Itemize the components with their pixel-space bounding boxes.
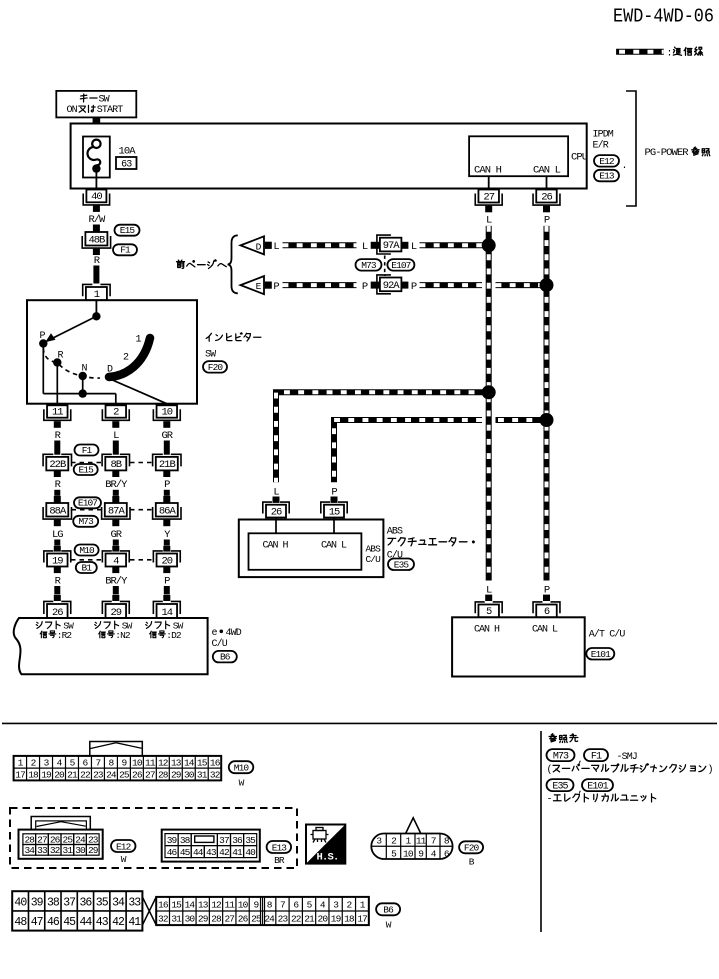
svg-text:42: 42 — [219, 847, 230, 858]
label P after 92A — [411, 281, 417, 293]
svg-text:23: 23 — [88, 834, 99, 845]
svg-text:21: 21 — [304, 914, 315, 925]
fuse label 10A [63] — [116, 145, 137, 170]
svg-text:CAN L: CAN L — [533, 164, 561, 176]
curly brace — [228, 235, 238, 293]
AT C/U box — [452, 617, 585, 676]
svg-text:4: 4 — [113, 555, 119, 567]
label ABS アクチュエーター C/U — [387, 527, 474, 562]
svg-text:25: 25 — [63, 834, 74, 845]
svg-text:B6: B6 — [220, 652, 231, 663]
svg-text:17: 17 — [357, 914, 367, 925]
inhibitor wiper arrow to P — [45, 316, 96, 342]
svg-text:7: 7 — [96, 757, 101, 768]
svg-text:87A: 87A — [108, 505, 126, 517]
svg-text:48B: 48B — [88, 234, 105, 246]
svg-text::N2: :N2 — [115, 630, 131, 641]
svg-text:86A: 86A — [159, 505, 177, 517]
comm line E segment 1 — [283, 282, 357, 288]
label P at AT pin 6 — [544, 584, 550, 596]
svg-text:13: 13 — [171, 757, 182, 768]
stub ABS pin 26 — [273, 497, 280, 503]
label BR under E13 — [274, 855, 285, 866]
oval B1 — [76, 562, 97, 573]
svg-text:33: 33 — [37, 845, 48, 856]
ABS inner CPU box — [249, 533, 362, 570]
svg-text:L: L — [411, 241, 417, 253]
svg-text:10: 10 — [132, 757, 143, 768]
svg-text:B6: B6 — [383, 905, 394, 916]
svg-text:31: 31 — [197, 770, 208, 781]
svg-text:45: 45 — [180, 847, 191, 858]
svg-text:43: 43 — [206, 847, 217, 858]
svg-text:-: - — [547, 794, 553, 805]
junction dot branch CAN L — [540, 413, 554, 427]
svg-text:P: P — [411, 281, 417, 293]
legend comm line sample — [616, 49, 664, 55]
connector 15 pin on ABS — [321, 502, 347, 518]
svg-text:20: 20 — [54, 770, 65, 781]
svg-text:L: L — [486, 584, 492, 596]
svg-text:A/T C/U: A/T C/U — [589, 629, 626, 641]
label P at ABS pin 15 — [331, 486, 337, 498]
svg-text:21: 21 — [67, 770, 78, 781]
oval B6 — [213, 651, 237, 663]
svg-text:11: 11 — [52, 407, 63, 419]
CPU box — [469, 136, 588, 176]
label P before 92A — [362, 281, 368, 293]
e4WD C/U box (torn left edge) — [14, 618, 208, 674]
stub left of 97A — [371, 242, 380, 249]
B6 bowtie link — [142, 897, 156, 925]
label シフトSW 信号:D2 — [146, 620, 184, 641]
svg-text:4WD: 4WD — [226, 628, 242, 639]
connector 92A — [377, 275, 402, 294]
svg-text:29: 29 — [88, 845, 99, 856]
svg-text:23: 23 — [93, 770, 104, 781]
svg-text:.: . — [622, 161, 628, 172]
svg-text:P: P — [544, 584, 550, 596]
svg-text:): ) — [708, 764, 714, 776]
connector 1 on inhibitor SW — [83, 284, 110, 301]
svg-text:38: 38 — [47, 896, 60, 909]
oval E107 — [387, 259, 414, 271]
comm line E segment 2b (after crossing) — [496, 282, 547, 288]
comm line D segment 1 — [283, 242, 357, 248]
label L at AT pin 5 — [486, 584, 492, 596]
svg-text:E12: E12 — [599, 156, 615, 167]
svg-text:E101: E101 — [591, 649, 611, 660]
svg-text:32: 32 — [210, 770, 221, 781]
IPDM E/R box — [71, 124, 587, 189]
svg-text:P: P — [544, 214, 550, 226]
svg-text:23: 23 — [278, 914, 289, 925]
svg-text:24: 24 — [106, 770, 117, 781]
connector 14 pin on e4WD — [153, 601, 180, 618]
svg-text:e: e — [212, 628, 218, 639]
label e 4WD C/U — [212, 628, 242, 650]
svg-text:2: 2 — [113, 407, 119, 419]
wire R from 19 to 26 — [54, 567, 62, 602]
label シフトSW 信号:R2 — [36, 620, 74, 641]
svg-text:92A: 92A — [383, 280, 401, 292]
svg-text:13: 13 — [198, 899, 209, 910]
svg-text:P: P — [362, 281, 368, 293]
svg-text:40: 40 — [245, 847, 256, 858]
wire Y from 86A to 20 — [163, 520, 171, 552]
svg-text:44: 44 — [80, 916, 93, 929]
reference divider vertical — [540, 731, 542, 932]
svg-text:M10: M10 — [234, 763, 250, 774]
svg-text:E/R: E/R — [593, 140, 609, 152]
connector 19 — [44, 551, 71, 567]
connector 87A — [102, 503, 130, 519]
svg-text:37: 37 — [63, 896, 75, 909]
svg-text:CAN L: CAN L — [321, 541, 347, 552]
wire GR from 87A to 4 — [110, 520, 122, 552]
dashed link 97A-92A — [384, 256, 386, 277]
oval F20 bottom — [459, 841, 483, 853]
label スーパーマルプルチジャンクション — [547, 764, 714, 776]
svg-text:M73: M73 — [361, 260, 377, 271]
svg-text::R2: :R2 — [57, 630, 73, 641]
svg-text:41: 41 — [128, 916, 141, 929]
oval E15 row2 — [74, 464, 98, 475]
connector face E13 housing and grid — [162, 830, 260, 862]
svg-text:27: 27 — [37, 834, 47, 845]
svg-text:12: 12 — [211, 899, 222, 910]
inhibitor internal: top node — [92, 300, 100, 320]
wire R/W stub — [93, 205, 100, 212]
svg-text:E15: E15 — [78, 464, 94, 475]
svg-text:CAN H: CAN H — [474, 624, 500, 635]
svg-text:47: 47 — [31, 916, 43, 929]
svg-text:E101: E101 — [587, 781, 608, 792]
svg-text:-SMJ: -SMJ — [617, 752, 637, 763]
svg-text:31: 31 — [171, 914, 182, 925]
connector face B6 left grid — [12, 891, 142, 930]
svg-text:39: 39 — [167, 835, 178, 846]
connector 26 pin on e4WD — [44, 601, 71, 618]
oval E107 — [74, 497, 101, 508]
svg-text:C/U: C/U — [212, 638, 228, 650]
svg-text:14: 14 — [185, 899, 196, 910]
svg-text:SW: SW — [99, 94, 110, 105]
svg-text:26: 26 — [238, 914, 249, 925]
connector 22B — [43, 454, 71, 471]
label インヒビターSW — [205, 333, 261, 361]
label L at ABS pin 26 — [273, 486, 279, 498]
svg-text:43: 43 — [96, 916, 109, 929]
svg-text:32: 32 — [158, 914, 169, 925]
svg-text:P: P — [164, 576, 170, 588]
wire key switch to IPDM — [93, 117, 101, 140]
svg-text:SW: SW — [205, 350, 216, 361]
svg-text:CAN H: CAN H — [474, 164, 502, 176]
svg-text:26: 26 — [271, 506, 282, 518]
legend label 通信線 — [667, 47, 703, 59]
connector 21B — [153, 454, 181, 471]
svg-text:10: 10 — [403, 848, 414, 859]
svg-text:P: P — [164, 479, 170, 491]
connector face B6 right grid — [156, 897, 369, 925]
IPDM E/R labels and connector ovals E12 E13 — [593, 130, 628, 182]
svg-text:39: 39 — [31, 896, 44, 909]
inhibitor switch box — [27, 300, 197, 404]
svg-text:36: 36 — [232, 835, 243, 846]
label W under B6 — [386, 919, 392, 930]
svg-text:34: 34 — [24, 845, 35, 856]
connector 10 pin on inhibitor — [153, 405, 180, 420]
contact P — [39, 331, 47, 348]
oval B6 bottom — [376, 903, 400, 915]
svg-text:29: 29 — [198, 914, 209, 925]
stub below 27 — [485, 206, 492, 213]
svg-text:10A: 10A — [119, 145, 137, 157]
svg-text:16: 16 — [210, 757, 221, 768]
svg-text:11: 11 — [224, 899, 235, 910]
svg-text:63: 63 — [121, 159, 132, 170]
wire R from pin to 22B — [54, 421, 62, 455]
label L after 97A — [411, 241, 417, 253]
svg-text:18: 18 — [28, 770, 39, 781]
svg-text:M73: M73 — [553, 751, 569, 762]
svg-text:41: 41 — [232, 847, 243, 858]
ABS internal wires — [276, 518, 334, 534]
svg-text:28: 28 — [24, 834, 35, 845]
svg-text:L: L — [273, 241, 279, 253]
stub AT pin 5 — [485, 595, 492, 601]
label 前ページへ — [177, 260, 227, 269]
svg-text:28: 28 — [211, 914, 222, 925]
svg-text:24: 24 — [75, 834, 86, 845]
oval E12 bottom — [111, 840, 136, 852]
comm branch CAN H to ABS — [276, 392, 489, 482]
svg-text:22B: 22B — [49, 459, 66, 471]
dashed link 88A-87A-86A — [72, 509, 153, 511]
contact N — [79, 364, 88, 381]
svg-text:19: 19 — [52, 555, 63, 567]
wire BR/Y from 8B to 87A — [105, 470, 128, 503]
svg-text:ON: ON — [67, 105, 78, 116]
svg-text:46: 46 — [47, 916, 60, 929]
svg-text:26: 26 — [541, 191, 552, 203]
connector 26 pin on ABS — [263, 502, 289, 518]
svg-text:ABS: ABS — [387, 527, 403, 538]
connector 6 pin on AT — [533, 602, 560, 618]
label L below 27 — [486, 214, 492, 226]
svg-text:7: 7 — [280, 899, 285, 910]
svg-text:22: 22 — [291, 914, 302, 925]
label シフトSW 信号:N2 — [95, 620, 133, 641]
svg-text:E35: E35 — [394, 559, 410, 570]
stub right of 97A — [401, 242, 408, 249]
oval M73 ref — [547, 749, 575, 762]
svg-text:B1: B1 — [81, 562, 92, 573]
triangle D (from previous page) — [241, 236, 265, 254]
svg-text:(: ( — [547, 764, 553, 776]
oval E101 ref — [582, 779, 613, 792]
svg-text:LG: LG — [52, 529, 63, 541]
svg-text:START: START — [97, 105, 123, 116]
svg-text:36: 36 — [80, 896, 93, 909]
svg-text:27: 27 — [145, 770, 155, 781]
comm line E segment 2a — [420, 282, 483, 288]
connector 20 — [153, 551, 180, 567]
svg-text:25: 25 — [251, 914, 262, 925]
svg-text:E15: E15 — [120, 225, 136, 236]
junction dot D line CAN H — [482, 238, 496, 252]
stub ABS pin 15 — [331, 497, 338, 503]
svg-text:27: 27 — [224, 914, 234, 925]
wire P from 20 to 14 — [163, 567, 170, 602]
ABS actuator box — [239, 520, 384, 578]
oval M73 — [356, 259, 382, 271]
svg-text:F20: F20 — [208, 362, 224, 373]
svg-text:P: P — [273, 281, 279, 293]
svg-text:F1: F1 — [82, 445, 93, 456]
inhibitor wiring to pins — [43, 348, 167, 404]
svg-text::: : — [667, 49, 672, 60]
svg-text:M73: M73 — [78, 516, 94, 527]
svg-text:40: 40 — [14, 896, 27, 909]
oval F1 — [113, 244, 137, 255]
svg-text:GR: GR — [110, 529, 122, 541]
dashed link 22B-8B-21B — [71, 462, 153, 464]
svg-text:15: 15 — [197, 757, 208, 768]
wire label R/W — [88, 214, 106, 226]
svg-text:CAN L: CAN L — [532, 624, 558, 635]
svg-text:BR/Y: BR/Y — [105, 576, 128, 588]
connector 4 — [102, 551, 129, 567]
connector 86A — [153, 503, 181, 519]
connector 29 pin on e4WD — [102, 601, 129, 618]
stub right of 92A — [401, 282, 408, 289]
svg-text:42: 42 — [112, 916, 125, 929]
oval F1 ref — [584, 749, 608, 762]
connector face M10 tab — [90, 742, 143, 756]
svg-text:F1: F1 — [591, 751, 602, 762]
svg-text:32: 32 — [50, 845, 61, 856]
wires CPU to pins 27 26 — [489, 176, 547, 189]
label PG-POWER参照 — [645, 147, 710, 159]
svg-text:45: 45 — [63, 916, 76, 929]
svg-text:22: 22 — [80, 770, 91, 781]
position labels D 2 1 — [107, 335, 142, 376]
svg-text:46: 46 — [167, 847, 178, 858]
contact R — [53, 351, 63, 367]
svg-text:21B: 21B — [159, 459, 176, 471]
label P below 26 — [544, 214, 550, 226]
label W under M10 — [239, 778, 245, 789]
svg-text:44: 44 — [193, 847, 204, 858]
connector 48B — [82, 232, 110, 248]
wire L from pin to 8B — [112, 421, 119, 455]
svg-text:24: 24 — [264, 914, 275, 925]
connector face F20 keying tab — [406, 818, 421, 834]
svg-text:97A: 97A — [383, 240, 401, 252]
stub AT pin 6 — [543, 595, 550, 601]
label B under F20 — [469, 856, 475, 867]
svg-text:19: 19 — [41, 770, 52, 781]
svg-text:H.S.: H.S. — [316, 852, 338, 864]
label -SMJ — [617, 752, 637, 763]
svg-text:33: 33 — [128, 896, 141, 909]
wire LG from 88A to 19 — [52, 520, 63, 552]
svg-text:ABS: ABS — [366, 544, 382, 555]
svg-text:37: 37 — [219, 835, 229, 846]
dashed group box E12 E13 — [10, 808, 297, 868]
svg-text:CPU: CPU — [571, 151, 588, 163]
svg-text:IPDM: IPDM — [593, 130, 614, 141]
oval M73 row2 — [73, 516, 98, 527]
label L on D line — [273, 241, 279, 253]
svg-text:18: 18 — [344, 914, 355, 925]
svg-text:CAN H: CAN H — [263, 541, 289, 552]
svg-text:30: 30 — [184, 770, 195, 781]
bracket PG-POWER — [626, 91, 636, 206]
connector face E12 housing and grid — [19, 830, 103, 859]
svg-text:10: 10 — [161, 407, 172, 419]
svg-text:12: 12 — [158, 757, 169, 768]
svg-text:L: L — [486, 214, 492, 226]
comma 2 — [578, 785, 584, 796]
svg-text:29: 29 — [171, 770, 182, 781]
svg-text:11: 11 — [145, 757, 156, 768]
oval F1 row2 — [75, 445, 99, 456]
oval E35 — [388, 559, 414, 571]
label エレクトリカルユニット — [547, 794, 656, 806]
dashed link 19-4-20 — [71, 559, 153, 561]
svg-text:26: 26 — [132, 770, 143, 781]
svg-text:EWD-4WD-06: EWD-4WD-06 — [613, 6, 714, 28]
oval M10 — [75, 545, 99, 556]
dashed selector arc P-R-N-D — [43, 348, 100, 378]
oval E15 — [115, 225, 140, 236]
connector 88A — [43, 503, 71, 519]
svg-text:35: 35 — [96, 896, 109, 909]
oval M10 bottom — [229, 761, 254, 773]
stub left of 92A — [371, 282, 380, 289]
oval E35 ref — [547, 779, 574, 792]
svg-text:BR: BR — [274, 855, 285, 866]
svg-text::D2: :D2 — [166, 630, 182, 641]
label L before 97A — [362, 241, 368, 253]
connector 40 pin on IPDM — [83, 190, 109, 205]
title EWD-4WD-06 — [613, 6, 714, 28]
svg-text:L: L — [362, 241, 368, 253]
svg-text:25: 25 — [119, 770, 130, 781]
svg-text:C/U: C/U — [366, 554, 382, 565]
comm branch CAN L to ABS part 1 — [496, 417, 547, 423]
svg-text:30: 30 — [185, 914, 196, 925]
H.S. logo — [306, 825, 345, 864]
wire stub below 48B — [93, 249, 100, 255]
wire stub above 48B — [93, 225, 100, 233]
svg-text:38: 38 — [180, 835, 191, 846]
connector 2 pin on inhibitor — [102, 405, 129, 420]
wire R from 22B to 88A — [54, 470, 62, 503]
svg-text:35: 35 — [245, 835, 256, 846]
svg-text:8B: 8B — [110, 459, 121, 471]
svg-text:R/W: R/W — [88, 214, 106, 226]
svg-text:31: 31 — [63, 845, 74, 856]
svg-text:BR/Y: BR/Y — [105, 479, 128, 491]
svg-text:E107: E107 — [391, 260, 410, 271]
svg-text:16: 16 — [158, 899, 169, 910]
connector 97A — [377, 235, 402, 254]
wire BR/Y from 4 to 29 — [105, 567, 128, 602]
